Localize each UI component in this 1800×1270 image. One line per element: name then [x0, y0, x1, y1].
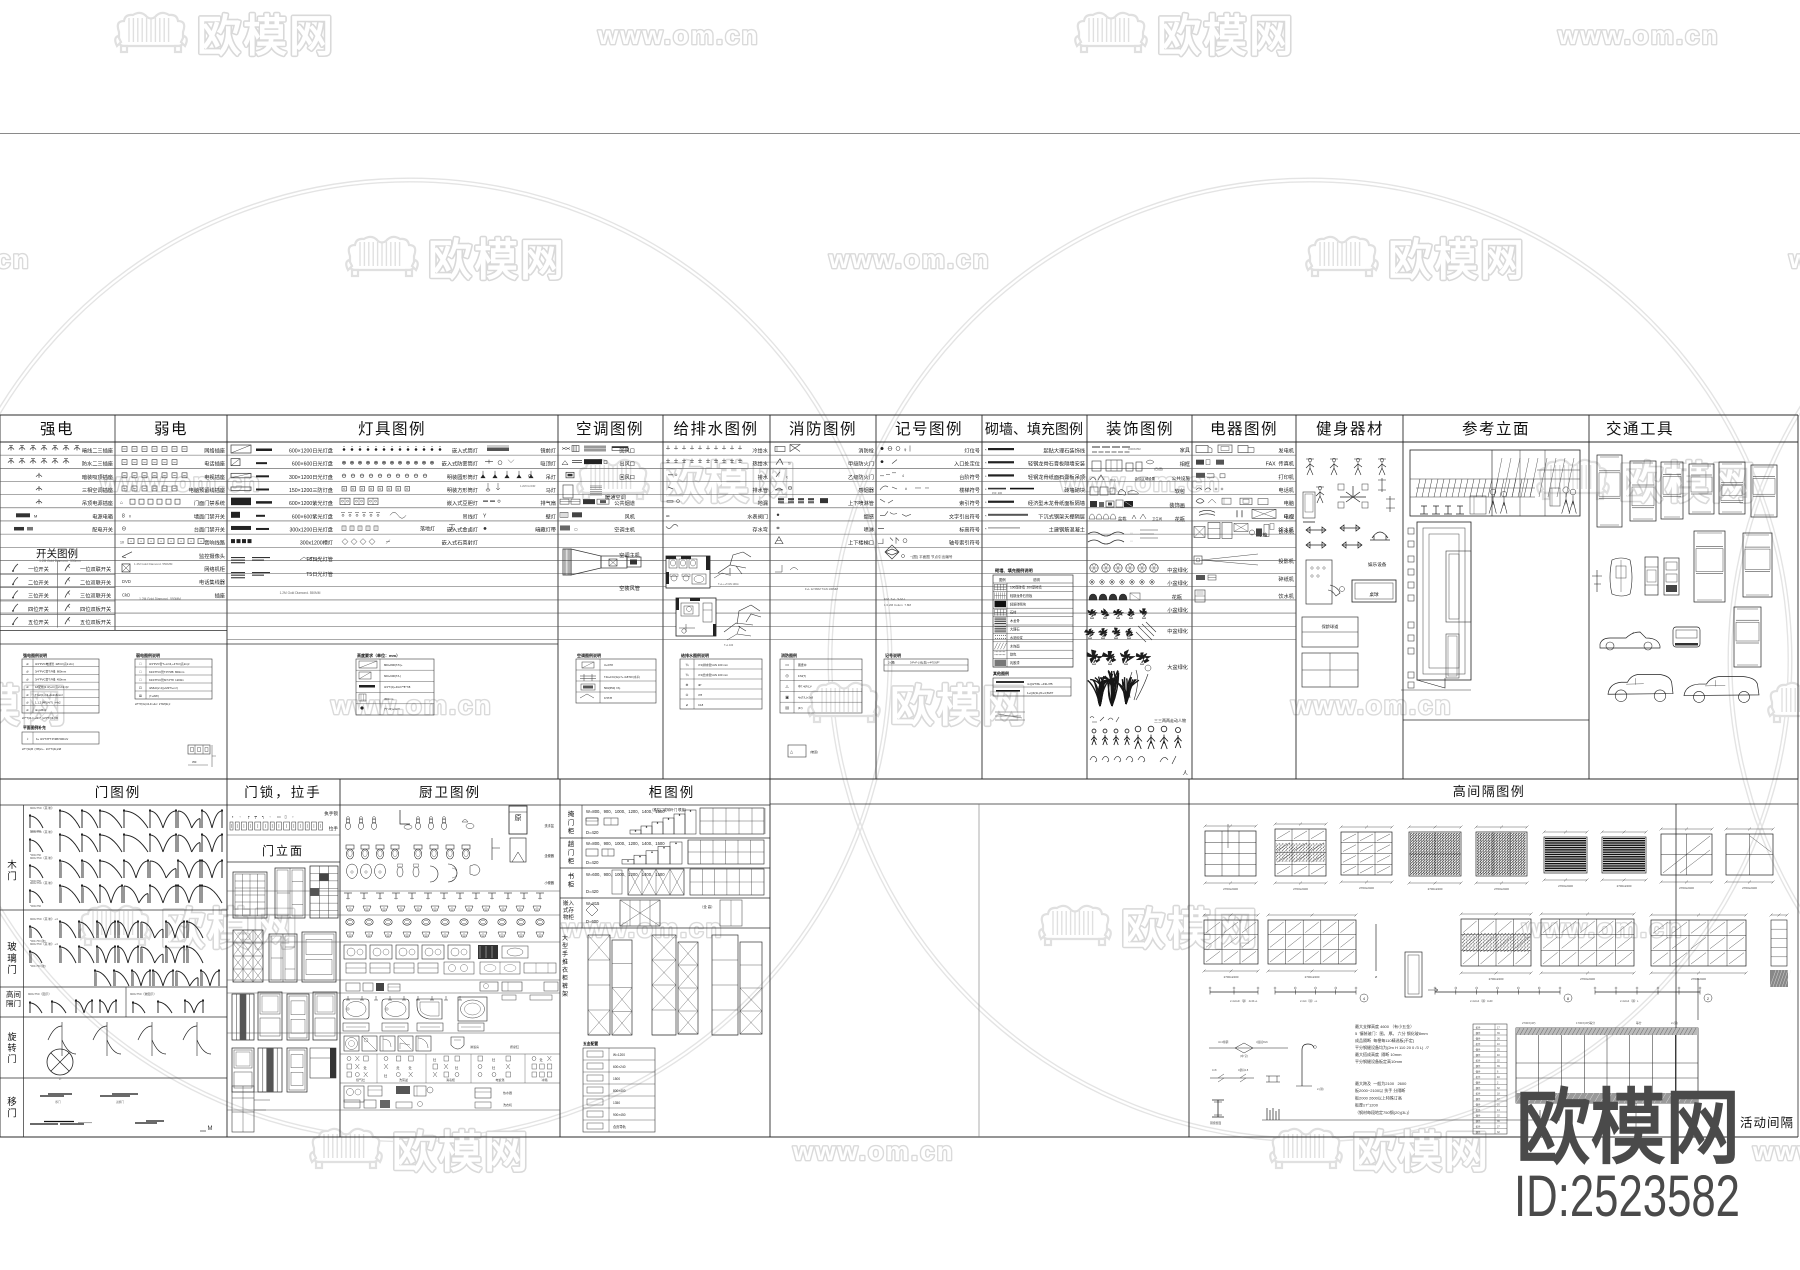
svg-text:砌墙、填充图例说明: 砌墙、填充图例说明	[994, 567, 1033, 574]
svg-text:150×1200三防灯盘: 150×1200三防灯盘	[289, 486, 333, 494]
svg-text:桌球: 桌球	[1369, 591, 1379, 598]
svg-text:900x750（图示）: 900x750（图示）	[28, 992, 52, 996]
svg-text:回风口: 回风口	[619, 474, 635, 481]
svg-text:欧模网: 欧模网	[890, 682, 1028, 731]
svg-text:www.om.cn: www.om.cn	[99, 467, 262, 497]
svg-text:软包: 软包	[1175, 487, 1185, 495]
svg-text:·钢件: ·钢件	[1475, 1037, 1481, 1041]
svg-text:吊顶电源插座: 吊顶电源插座	[82, 499, 113, 507]
svg-text:4-Q3/7/8L +F3L/7B: 4-Q3/7/8L +F3L/7B	[1027, 682, 1053, 686]
svg-text:2700x2400: 2700x2400	[1428, 887, 1443, 891]
svg-text:风机: 风机	[625, 512, 636, 520]
svg-text:(坡道): (坡道)	[810, 749, 818, 754]
column 装饰图例 content	[1084, 446, 1190, 777]
svg-text:www.om.cn: www.om.cn	[1557, 20, 1720, 50]
svg-text:·扣件: ·扣件	[1475, 1125, 1481, 1129]
svg-text:b3/4"PVC管M7.P78 1200m: b3/4"PVC管M7.P78 1200m	[149, 678, 184, 682]
svg-text:投影机: 投影机	[1278, 557, 1294, 565]
svg-text:执手锁: 执手锁	[324, 810, 338, 817]
svg-text:最大跨及 一般为2100 2600: 最大跨及 一般为2100 2600	[1355, 1080, 1407, 1086]
svg-text:暗线二三插座: 暗线二三插座	[82, 447, 113, 455]
svg-text:·钢件: ·钢件	[1475, 1114, 1481, 1118]
svg-text:DVD: DVD	[122, 579, 131, 584]
svg-text:架: 架	[562, 990, 568, 998]
svg-text:音响线路: 音响线路	[204, 539, 226, 547]
svg-text:台阶符号: 台阶符号	[959, 473, 980, 481]
svg-text:消毒柜: 消毒柜	[446, 1077, 455, 1082]
svg-text:五位双板开关: 五位双板开关	[80, 618, 111, 626]
svg-text:感烟器: 感烟器	[858, 486, 874, 494]
svg-text:起贴大理石装饰线: 起贴大理石装饰线	[1043, 447, 1085, 455]
svg-text:参考立面: 参考立面	[1462, 420, 1530, 438]
svg-text:D=420: D=420	[586, 830, 599, 835]
svg-text:⊕: ⊕	[685, 683, 688, 687]
svg-text:公共烟道: 公共烟道	[614, 499, 635, 507]
svg-text:2700x2400: 2700x2400	[1223, 887, 1238, 891]
svg-text:板2000~2100以 扶手 分隔断: 板2000~2100以 扶手 分隔断	[1355, 1087, 1405, 1093]
svg-text:800×400: 800×400	[613, 1089, 626, 1093]
svg-text:弱电: 弱电	[154, 420, 188, 438]
bottom appliance rows	[344, 1086, 364, 1102]
svg-text:◦◦◦: ◦◦◦	[1130, 531, 1133, 535]
svg-text:欧模网: 欧模网	[659, 459, 797, 508]
svg-text:3/4"PVC管T+m²/4,+4TC²(高2m)²: 3/4"PVC管T+m²/4,+4TC²(高2m)²	[149, 662, 190, 666]
svg-text:门: 门	[568, 818, 575, 827]
svg-text:中盆绿化: 中盆绿化	[1167, 566, 1188, 574]
svg-text:4/MHz(2.4)(+M3T²+m²): 4/MHz(2.4)(+M3T²+m²)	[149, 686, 178, 690]
svg-text:(*7 2F)+4x²T: (*7 2F)+4x²T	[384, 707, 400, 711]
svg-text:入口处定位: 入口处定位	[954, 460, 980, 468]
svg-text:嵌入式金卤灯: 嵌入式金卤灯	[447, 525, 478, 533]
svg-text:轴号索引符号: 轴号索引符号	[949, 539, 980, 547]
detail hatch marks bottom	[1267, 1108, 1279, 1120]
svg-text:人: 人	[1182, 770, 1188, 777]
svg-text:电脑预留线插座: 电脑预留线插座	[189, 486, 225, 494]
svg-text:电器图例: 电器图例	[1210, 420, 1278, 438]
svg-text:欧模网: 欧模网	[0, 682, 68, 731]
svg-text:给排水图例: 给排水图例	[673, 420, 758, 438]
svg-text:www.om.cn: www.om.cn	[597, 20, 760, 50]
svg-text:900x750（英 制）+4: 900x750（英 制）+4	[30, 941, 58, 946]
svg-text:（全 高）: （全 高）	[700, 904, 715, 909]
svg-text:▤: ▤	[785, 706, 789, 710]
svg-text:五位开关: 五位开关	[28, 618, 49, 626]
detail floor lamp	[1302, 1044, 1314, 1086]
svg-text:欧模网: 欧模网	[1352, 1128, 1490, 1177]
svg-text:·钢件: ·钢件	[1475, 1130, 1481, 1134]
svg-text:掩: 掩	[568, 809, 575, 818]
svg-text:门: 门	[7, 1108, 17, 1120]
tsink row2	[346, 932, 354, 937]
svg-text:3/4"PVC管T.P线 450mm: 3/4"PVC管T.P线 450mm	[35, 677, 67, 681]
svg-text:(F²): (F²)	[798, 706, 803, 710]
svg-text:C18: C18	[698, 703, 704, 707]
column 砌墙填充 content	[985, 447, 1086, 721]
svg-text:台面门禁开关: 台面门禁开关	[194, 525, 225, 533]
svg-text:2-4x4（钢）+L: 2-4x4（钢）+L	[1300, 999, 1318, 1003]
svg-text:♪: ♪	[27, 736, 29, 741]
svg-text:2700x2400: 2700x2400	[1617, 884, 1632, 888]
svg-text:图纸中: 图纸中	[798, 663, 807, 667]
svg-text:最大搭成高度 隔断 10mm: 最大搭成高度 隔断 10mm	[1355, 1051, 1402, 1057]
svg-text:1350: 1350	[613, 1101, 620, 1105]
svg-text:·扣件: ·扣件	[1475, 1042, 1481, 1046]
svg-text:成品隔断 每樘每110精选板(不定): 成品隔断 每樘每110精选板(不定)	[1355, 1037, 1415, 1043]
svg-text:300x1200日光灯盘: 300x1200日光灯盘	[289, 525, 333, 533]
boat and trucks row	[1592, 570, 1602, 592]
svg-text:转: 转	[7, 1042, 16, 1053]
svg-text:网络机柜: 网络机柜	[204, 565, 225, 573]
svg-text:楼梯符号: 楼梯符号	[959, 486, 980, 494]
svg-text:碎纸机: 碎纸机	[1278, 575, 1294, 583]
svg-text:600×240: 600×240	[613, 1065, 626, 1069]
column 空调图例 content	[560, 446, 641, 593]
svg-text:www.om.cn: www.om.cn	[792, 1136, 955, 1166]
svg-text:D=420: D=420	[586, 889, 599, 894]
bowling plan	[1302, 617, 1358, 647]
svg-text:1700X(3P)等分: 1700X(3P)等分	[1576, 1021, 1595, 1025]
svg-text:健身器材: 健身器材	[1316, 420, 1384, 438]
cabinet elevation with leaders	[232, 907, 234, 909]
svg-text:淋浴房: 淋浴房	[470, 1044, 479, 1049]
column 记号图例 content	[878, 446, 980, 608]
svg-text:水泥砂浆: 水泥砂浆	[1010, 635, 1024, 640]
svg-text:900x750（英 制）: 900x750（英 制）	[30, 880, 54, 885]
svg-text:平分钢缝设备均为(2m H 110 20 0 /3 L): 平分钢缝设备均为(2m H 110 20 0 /3 L) /7	[1355, 1044, 1430, 1050]
svg-text:发电机: 发电机	[1278, 447, 1294, 455]
svg-text:暗装吸顶插座: 暗装吸顶插座	[82, 473, 113, 481]
svg-text:2700x2400: 2700x2400	[1494, 887, 1509, 891]
svg-text:记号说明: 记号说明	[885, 652, 901, 658]
svg-text:www.om.cn: www.om.cn	[1521, 913, 1684, 943]
svg-text:饮水机: 饮水机	[1278, 527, 1294, 535]
svg-text:2700x2400: 2700x2400	[1691, 977, 1706, 981]
svg-text:1.2M Gold Diamond. 550MM: 1.2M Gold Diamond. 550MM	[134, 562, 173, 566]
svg-text:m¹|¹: m¹|¹	[1110, 478, 1117, 482]
svg-text:电话插座: 电话插座	[204, 460, 225, 468]
tall fitting symbol	[509, 806, 527, 834]
svg-text:给排水图例说明: 给排水图例说明	[680, 652, 709, 658]
svg-text:高间: 高间	[6, 989, 21, 999]
svg-text:D=600: D=600	[586, 919, 599, 924]
svg-text:3/4"T(2)+4G²/7*8"T/8: 3/4"T(2)+4G²/7*8"T/8	[384, 685, 411, 689]
svg-text:www.om.cn: www.om.cn	[1752, 1136, 1800, 1166]
material list table	[1473, 1024, 1507, 1134]
svg-text:打印机: 打印机	[1278, 473, 1294, 481]
svg-text:2-(图): 2-(图)	[888, 661, 895, 665]
svg-text:公共设施: 公共设施	[1172, 475, 1191, 482]
svg-text:土建钢筋混凝土: 土建钢筋混凝土	[1049, 525, 1085, 533]
svg-text:欧模网: 欧模网	[428, 236, 566, 285]
svg-text:地漏: 地漏	[758, 499, 768, 507]
detail I section	[1212, 1100, 1224, 1117]
svg-text:900x750（英 制）+4: 900x750（英 制）+4	[30, 916, 58, 921]
svg-text:木饰面: 木饰面	[1010, 643, 1020, 648]
svg-text:D=420: D=420	[586, 860, 599, 865]
svg-text:9.5T/8: 9.5T/8	[604, 696, 612, 700]
svg-text:洗衣机: 洗衣机	[503, 1102, 512, 1107]
svg-text:（推拉门或响叶门 联接）: （推拉门或响叶门 联接）	[650, 807, 688, 812]
svg-text:⊠: ⊠	[139, 694, 142, 698]
svg-text:弱电图例说明: 弱电图例说明	[136, 652, 160, 658]
svg-text:石材: 石材	[1010, 610, 1017, 615]
svg-text:最大支撑高度 4600 （有小五金）: 最大支撑高度 4600 （有小五金）	[1355, 1023, 1414, 1029]
svg-text:防水二三插座: 防水二三插座	[82, 460, 113, 468]
svg-text:保龄球道: 保龄球道	[1322, 623, 1340, 630]
svg-text:门: 门	[568, 848, 575, 857]
hooks row	[346, 996, 350, 1000]
svg-text:▭: ▭	[574, 526, 578, 531]
svg-text:消防图例: 消防图例	[781, 652, 797, 658]
svg-text:（钢材每段地定750钢(20)(3L)）: （钢材每段地定750钢(20)(3L)）	[1355, 1109, 1412, 1115]
svg-text:450mm: 450mm	[384, 697, 394, 701]
door elevations grid	[233, 872, 267, 918]
svg-text:2700x2400: 2700x2400	[1359, 886, 1374, 890]
svg-text:2-(钢): 2-(钢)	[1317, 1087, 1324, 1091]
svg-text:移: 移	[7, 1096, 17, 1108]
cabinet legend 柜图例	[560, 805, 770, 1132]
svg-text:移门: 移门	[55, 1100, 61, 1104]
svg-text:门: 门	[7, 964, 17, 976]
svg-text:大盆绿化: 大盆绿化	[1167, 663, 1188, 671]
urinal bidet row	[227, 890, 560, 892]
svg-text:式存: 式存	[563, 906, 575, 914]
svg-text:(中 空): (中 空)	[1240, 1054, 1248, 1058]
svg-text:木: 木	[7, 859, 17, 871]
counter sinks row	[344, 945, 366, 959]
svg-text:900x750（英 制）: 900x750（英 制）	[30, 829, 54, 834]
bar figures	[1490, 489, 1496, 495]
oval sinks row	[346, 919, 354, 925]
svg-text:▯: ▯	[285, 814, 287, 819]
tall cabinets 门锁 bottom	[232, 1086, 254, 1132]
svg-text:欧模网: 欧模网	[161, 905, 299, 954]
svg-text:150 200: 150 200	[992, 491, 1003, 495]
svg-text:F.M T+L S-M-L: F.M T+L S-M-L	[884, 597, 906, 601]
svg-text:2700X(4P): 2700X(4P)	[1522, 1021, 1535, 1025]
svg-text:F.M(T): F.M(T)	[798, 674, 806, 678]
svg-text:监控摄像头: 监控摄像头	[199, 552, 225, 560]
svg-text:2-(钢): 2-(钢)	[1671, 1021, 1678, 1025]
svg-text:三位双联开关: 三位双联开关	[80, 592, 111, 600]
svg-text:三位开关: 三位开关	[28, 592, 49, 600]
svg-text:www.om.cn: www.om.cn	[1290, 690, 1453, 720]
svg-text:说明: 说明	[1033, 577, 1040, 582]
svg-text:门面门禁系统: 门面门禁系统	[194, 499, 225, 507]
svg-text:小盆绿化: 小盆绿化	[1167, 579, 1188, 587]
svg-text:洗手盆: 洗手盆	[544, 823, 554, 828]
svg-text:2/T"P(3L)²/4-F²+4x² 2T/M(3L)²: 2/T"P(3L)²/4-F²+4x² 2T/M(3L)²	[135, 702, 170, 706]
svg-text:一位双联开关: 一位双联开关	[80, 565, 111, 573]
svg-text:·扣件: ·扣件	[1475, 1092, 1481, 1096]
sub-table 强电 install heights	[22, 652, 968, 767]
svg-text:电视: 电视	[1284, 512, 1294, 520]
svg-text:柜: 柜	[562, 974, 568, 982]
svg-text:木龙骨: 木龙骨	[1010, 618, 1020, 623]
svg-text:⊡: ⊡	[139, 686, 142, 690]
svg-text:灯位号: 灯位号	[964, 447, 980, 455]
svg-text:4mmBm²: 4mmBm²	[35, 708, 46, 712]
svg-text:排气扇: 排气扇	[540, 499, 556, 507]
svg-text:·钢件: ·钢件	[1475, 1086, 1481, 1090]
revolving door	[48, 1026, 76, 1054]
wardrobe internals row5	[588, 935, 610, 1035]
toilets row	[346, 845, 354, 849]
svg-text:一位开关: 一位开关	[28, 565, 49, 573]
svg-text:热水器: 热水器	[503, 1090, 512, 1095]
svg-text:·钢件: ·钢件	[1475, 1064, 1481, 1068]
svg-text:2700x2400: 2700x2400	[1224, 975, 1239, 979]
svg-text:书: 书	[568, 871, 575, 880]
svg-text:家具: 家具	[1180, 446, 1190, 454]
svg-text:玻: 玻	[7, 941, 17, 953]
svg-text:暖通空调: 暖通空调	[605, 493, 626, 501]
svg-text:4P: 4P	[698, 683, 702, 687]
flat tubs row	[343, 1023, 369, 1031]
svg-text:T²x2(2.-)-3+4x2x6mm²: T²x2(2.-)-3+4x2x6mm²	[35, 693, 63, 697]
svg-text:4"4(给水管)/AN 100 mm: 4"4(给水管)/AN 100 mm	[698, 673, 729, 677]
door legend 门图例	[0, 805, 227, 1137]
svg-text:FAX 传真机: FAX 传真机	[1266, 460, 1295, 468]
svg-text:电源电箱: 电源电箱	[92, 512, 113, 520]
svg-text:2700x2400: 2700x2400	[1679, 886, 1694, 890]
svg-text:▭: ▭	[277, 814, 281, 819]
svg-text:轻钢龙骨石膏板隔墙安装: 轻钢龙骨石膏板隔墙安装	[1028, 460, 1085, 468]
svg-text:350: 350	[192, 760, 197, 764]
narrow strip + hatch swatch	[1771, 914, 1787, 916]
svg-text:水表阀门: 水表阀门	[747, 512, 768, 520]
svg-text:吊灯: 吊灯	[546, 473, 556, 481]
svg-text:大: 大	[562, 934, 568, 942]
svg-text:F+L 12.5MM T/AN 100MM: F+L 12.5MM T/AN 100MM	[805, 587, 839, 591]
svg-text:出风口: 出风口	[619, 460, 635, 468]
bathtubs row	[343, 999, 369, 1019]
svg-text:欧模网: 欧模网	[1157, 12, 1295, 61]
svg-text:交通工具: 交通工具	[1606, 420, 1674, 438]
svg-text:S: S	[788, 461, 791, 466]
svg-text:标高符号: 标高符号	[959, 525, 980, 533]
svg-text:索引符号: 索引符号	[959, 499, 980, 507]
svg-text:吊线灯: 吊线灯	[462, 512, 478, 520]
svg-text:600×600紫光灯盘: 600×600紫光灯盘	[292, 512, 333, 520]
column 健身器材 content	[1302, 458, 1396, 687]
svg-text:T4A+F/C(3L)x7+-4x8T/F²(水平): T4A+F/C(3L)x7+-4x8T/F²(水平)	[604, 675, 640, 679]
svg-text:www.om.cn: www.om.cn	[828, 244, 991, 274]
AC duct drawing 空调风管	[563, 549, 641, 575]
svg-text:热给水: 热给水	[752, 460, 768, 468]
door elevation 参考立面	[1408, 528, 1414, 534]
svg-text:高间隔图例: 高间隔图例	[1453, 784, 1526, 799]
column 消防图例 content	[775, 445, 875, 592]
svg-text:·钢件: ·钢件	[1475, 1053, 1481, 1057]
svg-text:▣: ▣	[785, 695, 789, 699]
svg-text:2700x2400: 2700x2400	[1558, 884, 1573, 888]
svg-text:裤: 裤	[562, 982, 568, 990]
column 灯具图例 content	[231, 445, 556, 595]
svg-text:高度要求（单位：mm）: 高度要求（单位：mm）	[357, 652, 400, 658]
svg-text:趟: 趟	[568, 839, 575, 848]
svg-text:镜前灯: 镜前灯	[540, 447, 556, 455]
svg-text:双移门: 双移门	[116, 1100, 124, 1104]
svg-text:配电开关: 配电开关	[92, 525, 113, 533]
svg-text:门: 门	[7, 871, 17, 883]
svg-text:空调图例: 空调图例	[576, 420, 644, 438]
svg-text:·钢件: ·钢件	[1475, 1048, 1481, 1052]
svg-text:·扣件: ·扣件	[1475, 1108, 1481, 1112]
svg-text:明装方形筒灯: 明装方形筒灯	[447, 486, 478, 494]
svg-text:马灯: 马灯	[546, 486, 556, 494]
svg-text:8: 8	[122, 513, 125, 519]
svg-text:b+ 3/4"T/8"T.P/M8 500mV: b+ 3/4"T/8"T.P/M8 500mV	[36, 737, 68, 741]
svg-text:电饭煲: 电饭煲	[495, 1077, 504, 1082]
column 强电 content	[0, 446, 115, 628]
svg-text:2700x2400: 2700x2400	[1489, 977, 1504, 981]
svg-text:嵌入式豆胆灯: 嵌入式豆胆灯	[447, 499, 478, 507]
svg-text:4袋扣2.8: 4袋扣2.8	[1238, 1068, 1249, 1072]
svg-text:∞: ∞	[666, 513, 670, 519]
svg-text:门立面: 门立面	[262, 843, 304, 858]
small appliances row	[346, 983, 360, 991]
svg-text:T5日光灯管: T5日光灯管	[306, 570, 333, 578]
svg-text:开关图例: 开关图例	[36, 547, 78, 560]
partition legend 高间隔图例 row1	[1203, 823, 1792, 1021]
svg-text:强电图例说明: 强电图例说明	[23, 652, 47, 658]
svg-text:四位双板开关: 四位双板开关	[80, 605, 111, 613]
compass symbol	[885, 545, 899, 559]
plumbing axon 2	[724, 605, 761, 647]
svg-text:网络插座: 网络插座	[204, 447, 225, 455]
bottom table grid	[0, 779, 1798, 1137]
svg-text:吸顶灯: 吸顶灯	[540, 460, 556, 468]
svg-text:2700x2400: 2700x2400	[1580, 977, 1595, 981]
svg-text:2/7"T(3L)²-+4F²* (2/3*T²(3L)/: 2/7"T(3L)²-+4F²* (2/3*T²(3L)/²#	[22, 716, 58, 720]
svg-text:5 镶装玻门：图。 厚。 六分 钢化玻8mm: 5 镶装玻门：图。 厚。 六分 钢化玻8mm	[1355, 1030, 1428, 1036]
svg-text:·钢件: ·钢件	[1475, 1081, 1481, 1085]
wagon and sedan side views	[1608, 674, 1673, 694]
svg-text:空调主机: 空调主机	[614, 525, 636, 533]
people figures	[1092, 729, 1096, 733]
svg-text:软包: 软包	[1010, 652, 1017, 657]
svg-text:电话机: 电话机	[1278, 486, 1294, 494]
svg-text:明装圆形筒灯: 明装圆形筒灯	[447, 473, 478, 481]
svg-text:装饰画: 装饰画	[1169, 501, 1185, 509]
svg-text:空调主机: 空调主机	[619, 551, 641, 559]
svg-text:物柜: 物柜	[563, 913, 575, 921]
svg-text:*900x750: *900x750	[30, 904, 42, 908]
svg-text:插座: 插座	[215, 591, 225, 599]
svg-text:存水弯: 存水弯	[752, 525, 768, 533]
svg-text:合页导轨: 合页导轨	[613, 1124, 627, 1129]
svg-text:欧模网: 欧模网	[1388, 236, 1526, 285]
svg-text:经济型木龙骨纸面板隔墙: 经济型木龙骨纸面板隔墙	[1028, 499, 1085, 507]
svg-text:⊙: ⊙	[685, 693, 688, 697]
door frame elevation small	[1405, 952, 1422, 997]
svg-text:100厚砖墙 200厚砖墙: 100厚砖墙 200厚砖墙	[1010, 585, 1042, 590]
svg-text:乙级防火门: 乙级防火门	[848, 473, 874, 481]
svg-text:暗藏灯带: 暗藏灯带	[535, 525, 556, 533]
svg-text:二位双联开关: 二位双联开关	[80, 578, 111, 586]
detail I beam top	[1210, 1077, 1254, 1079]
svg-text:嵌入: 嵌入	[563, 900, 575, 907]
svg-text:欧模网: 欧模网	[1516, 1083, 1740, 1174]
svg-text:空装风管: 空装风管	[619, 584, 640, 592]
svg-text:4"8: 4"8	[698, 693, 703, 697]
svg-text:花瓶: 花瓶	[1172, 593, 1182, 601]
svg-text:柜: 柜	[568, 880, 575, 889]
svg-text:1.2M Gold Diamond. 550MM: 1.2M Gold Diamond. 550MM	[139, 597, 181, 601]
roadster and rear view	[1600, 632, 1660, 650]
svg-text:3/4"PVC电线管 -WFC²(高2.2m): 3/4"PVC电线管 -WFC²(高2.2m)	[35, 662, 74, 666]
